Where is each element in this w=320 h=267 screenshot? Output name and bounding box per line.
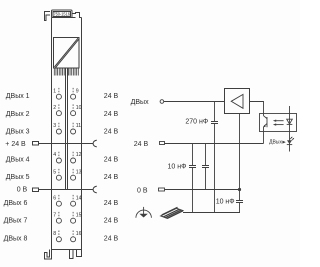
svg-text:ДВых 8: ДВых 8 — [4, 235, 28, 242]
terminal contact 7 — [56, 218, 61, 223]
svg-text:6: 6 — [53, 195, 56, 201]
center divider pair — [66, 68, 68, 190]
svg-text:12: 12 — [76, 152, 82, 158]
svg-text:2: 2 — [53, 105, 56, 111]
wire earth line — [183, 212, 240, 214]
+24V terminal tab square — [33, 142, 39, 146]
capacitor C4 10nF 0V-to-earth branch — [239, 190, 241, 213]
bottom foot U2 — [77, 250, 82, 257]
svg-text:4: 4 — [53, 152, 56, 158]
terminal module 750-1516 body — [33, 10, 97, 259]
terminal contact 3 — [56, 129, 61, 134]
wire LED cathode down to internal bus — [289, 132, 291, 152]
0V power jumper line — [39, 189, 94, 191]
top-left mounting hook — [45, 12, 51, 21]
op-amp U1 output driver box — [225, 89, 250, 114]
svg-text:ДВых 4: ДВых 4 — [6, 156, 30, 163]
wire 24V rail — [165, 143, 264, 145]
svg-text:3: 3 — [53, 123, 56, 129]
terminal contact 1 — [56, 94, 61, 99]
svg-text:ДВых 5: ДВых 5 — [6, 174, 30, 181]
svg-text:+ 24 В: + 24 В — [5, 141, 26, 148]
svg-text:270 нФ: 270 нФ — [185, 119, 208, 126]
node junction 0V — [238, 188, 241, 191]
terminal contact 4 — [56, 158, 61, 163]
op-amp U1 triangle — [231, 94, 243, 108]
+24V power jumper line — [39, 143, 94, 145]
light arrow 1 — [275, 120, 283, 122]
node DVyh data arrow — [282, 141, 285, 144]
svg-text:24 В: 24 В — [104, 200, 119, 207]
optocoupler U2 box — [260, 114, 297, 132]
0V right spring contact bracket — [93, 186, 97, 193]
svg-text:7: 7 — [53, 212, 56, 218]
terminal contact 10 — [71, 111, 76, 116]
marking box with diagonal — [54, 38, 80, 69]
terminal contact 5 — [56, 175, 61, 180]
svg-text:13: 13 — [76, 169, 82, 175]
capacitor C2 10nF 24V-to-earth branch — [192, 144, 194, 213]
0V rail terminal square — [159, 188, 165, 191]
svg-text:ДВых 1: ДВых 1 — [6, 93, 30, 100]
svg-text:ДВых: ДВых — [269, 140, 282, 146]
svg-text:24 В: 24 В — [104, 235, 119, 242]
bottom-left foot hook — [45, 250, 52, 260]
svg-text:24 В: 24 В — [134, 141, 149, 148]
light arrow 2 — [275, 124, 283, 126]
terminal contact 8 — [56, 237, 61, 242]
terminal contact 11 — [71, 129, 76, 134]
transistor Q1 phototransistor — [264, 114, 268, 132]
svg-text:24 В: 24 В — [104, 156, 119, 163]
module right wall — [81, 18, 83, 250]
svg-text:24 В: 24 В — [104, 93, 119, 100]
connector pin comb — [54, 68, 78, 76]
svg-text:8: 8 — [53, 231, 56, 237]
svg-text:24 В: 24 В — [104, 111, 119, 118]
terminal contact 15 — [71, 218, 76, 223]
module top edge — [52, 17, 76, 19]
wire DVyh terminal to driver — [164, 101, 224, 103]
schematic: one output channel — [136, 89, 297, 219]
svg-text:5: 5 — [53, 169, 56, 175]
node DVyh output terminal circle — [160, 100, 164, 104]
svg-text:16: 16 — [76, 231, 82, 237]
wire driver output to optocoupler top — [250, 102, 264, 114]
module left wall — [51, 18, 53, 250]
svg-text:15: 15 — [76, 212, 82, 218]
svg-text:10 нФ: 10 нФ — [216, 199, 235, 206]
DIN-rail contact symbol — [161, 208, 183, 218]
svg-text:1: 1 — [53, 88, 56, 94]
svg-text:9: 9 — [76, 88, 79, 94]
terminal contact 2 — [56, 111, 61, 116]
capacitor C1 270nF branch — [214, 102, 216, 213]
svg-text:ДВых: ДВых — [131, 99, 149, 106]
svg-text:10 нФ: 10 нФ — [167, 163, 186, 170]
wire driver ground to 0V node — [239, 114, 241, 190]
diode D2 status LED indicator — [287, 140, 292, 144]
svg-text:ДВых 2: ДВых 2 — [6, 111, 30, 118]
0V terminal tab square — [33, 188, 39, 192]
diode D1 optocoupler LED — [289, 106, 291, 132]
module bottom edge — [52, 249, 82, 251]
svg-text:24 В: 24 В — [104, 217, 119, 224]
svg-text:750-1516: 750-1516 — [53, 11, 70, 16]
terminal contact 12 — [71, 158, 76, 163]
wire optocoupler emitter to 24V rail — [263, 132, 265, 144]
24V rail terminal square — [160, 142, 165, 145]
label box 750-1516 inner — [53, 12, 71, 17]
capacitor C3 10nF 24V-to-0V branch — [205, 144, 207, 190]
wire 0V rail — [165, 189, 240, 191]
svg-text:24 В: 24 В — [104, 174, 119, 181]
+24V right spring contact bracket — [93, 140, 97, 147]
label box 750-1516 outer — [52, 10, 73, 18]
terminal contact 16 — [71, 237, 76, 242]
bottom foot U1 — [70, 250, 74, 259]
svg-text:11: 11 — [76, 123, 81, 129]
terminal contact 13 — [71, 175, 76, 180]
svg-text:ДВых 3: ДВых 3 — [6, 129, 30, 136]
svg-text:0 В: 0 В — [137, 187, 148, 194]
svg-text:ДВых 6: ДВых 6 — [4, 200, 28, 207]
top-right step — [72, 13, 82, 18]
svg-text:24 В: 24 В — [104, 129, 119, 136]
terminal contact 14 — [71, 201, 76, 206]
ground functional-earth symbol — [136, 210, 152, 218]
svg-text:14: 14 — [76, 195, 82, 201]
svg-text:10: 10 — [76, 105, 82, 111]
svg-text:0 В: 0 В — [17, 187, 28, 194]
terminal contact 9 — [71, 94, 76, 99]
svg-text:ДВых 7: ДВых 7 — [4, 217, 28, 224]
terminal contact 6 — [56, 201, 61, 206]
